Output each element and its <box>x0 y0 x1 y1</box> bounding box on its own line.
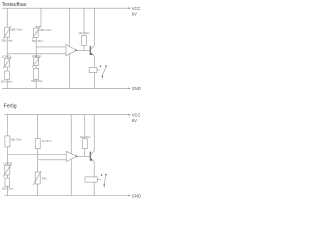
wire tap chain1 bc to opamp <box>7 154 66 156</box>
wire chain1 bc middle <box>6 147 8 165</box>
VCC rail (bottom circuit) <box>4 114 128 116</box>
svg-text:1k2 Ohm: 1k2 Ohm <box>80 135 92 139</box>
svg-text:GND: GND <box>132 86 141 91</box>
pull-up resistor R13 <box>82 139 87 149</box>
op-amp U1 <box>66 44 76 55</box>
wire chain1 bc bottom <box>6 186 8 195</box>
svg-text:P1k: P1k <box>42 177 47 181</box>
svg-text:2M2 Ohm: 2M2 Ohm <box>39 28 52 32</box>
GND arrow bottom <box>128 195 131 197</box>
resistor R8 <box>5 136 10 147</box>
LDR R9 <box>3 164 11 177</box>
relay2 contact common stub <box>103 186 105 188</box>
wire chain2 bc bottom <box>37 184 39 196</box>
wire between R5 and R6 <box>35 66 37 69</box>
wire relay2 coil to GND <box>93 182 95 195</box>
potentiometer R1 <box>3 26 11 39</box>
wire between LDR and R3 <box>6 67 8 71</box>
transistor Q2 <box>90 151 95 162</box>
wire chain2 jog <box>36 27 41 28</box>
svg-text:1k Ohm: 1k Ohm <box>42 139 52 143</box>
svg-text:Fertig: Fertig <box>4 104 17 110</box>
VCC arrow <box>128 7 131 9</box>
wire relay coil to GND <box>93 73 95 89</box>
resistor R10 <box>5 178 10 186</box>
wire tap chain1 to opamp <box>7 53 66 55</box>
relay2 contact NO terminal <box>105 174 107 176</box>
resistor R3 <box>5 71 10 79</box>
svg-text:VCC: VCC <box>132 6 141 11</box>
op-amp U1 output arrow <box>76 49 79 51</box>
wire R9 to R10 <box>6 175 8 178</box>
svg-text:2M2 Ohm: 2M2 Ohm <box>10 28 23 32</box>
wire Q1 collector to VCC <box>93 8 95 45</box>
wire opamp2 output to base <box>78 155 90 157</box>
VCC arrow bottom <box>128 114 131 116</box>
relay K1 coil <box>89 67 97 72</box>
relay contact common stub <box>101 77 103 79</box>
resistor R6 <box>34 68 39 79</box>
VCC rail (top circuit) <box>2 7 128 9</box>
potentiometer R4 <box>32 26 40 39</box>
svg-text:6V: 6V <box>132 12 137 17</box>
wire opamp output to base <box>78 50 90 52</box>
pull-up resistor R7 wire top <box>83 8 85 35</box>
svg-text:GND: GND <box>132 193 141 198</box>
svg-text:10k Ohm: 10k Ohm <box>10 138 22 142</box>
relay contact common terminal <box>102 76 104 78</box>
GND arrow <box>128 88 131 90</box>
wire R7 to output node <box>83 45 85 50</box>
wire chain2 top <box>40 8 42 26</box>
svg-text:LDR03: LDR03 <box>2 55 11 59</box>
GND rail (bottom circuit) <box>4 195 128 197</box>
transistor Q1 <box>90 46 95 57</box>
svg-text:560 Ohm: 560 Ohm <box>32 39 44 43</box>
wire chain1 top <box>6 8 8 27</box>
relay contact NO terminal <box>105 65 107 67</box>
svg-text:6V: 6V <box>132 118 137 123</box>
wire tap chain2 to opamp <box>36 46 66 48</box>
relay K1 mechanical link dash <box>97 69 100 71</box>
op-amp U2 output arrow <box>76 155 79 157</box>
relay contact lever <box>102 66 106 75</box>
wire chain1 bottom <box>6 79 8 88</box>
op-amp U2 VCC pin <box>70 115 72 154</box>
svg-text:Testaufbau: Testaufbau <box>2 2 27 8</box>
wire chain2 middle <box>35 38 37 58</box>
GND rail (top circuit) <box>2 87 128 89</box>
svg-text:560 Ohm: 560 Ohm <box>2 187 14 191</box>
relay2 contact lever <box>104 175 106 184</box>
wire Q1 emitter to relay <box>93 56 95 67</box>
relay2 contact NC terminal <box>101 174 103 176</box>
op-amp U2 GND pin <box>70 159 72 195</box>
relay K2 mechanical link dash <box>97 178 101 180</box>
potentiometer R12 <box>33 171 41 186</box>
wire chain2 bottom <box>35 79 37 88</box>
op-amp U1 GND pin <box>69 54 71 89</box>
pull-up resistor R13 wire top <box>84 115 86 139</box>
svg-text:LDR03: LDR03 <box>4 161 13 165</box>
wire chain2 bc top <box>37 115 39 139</box>
wire chain1 bottom-circuit top <box>6 115 8 136</box>
wire tap chain2 bc to opamp <box>38 159 66 161</box>
svg-text:560 Ohm: 560 Ohm <box>31 79 43 83</box>
relay2 contact common terminal <box>103 184 105 186</box>
wire chain1 middle <box>6 37 8 58</box>
LDR R2 <box>3 57 11 69</box>
wire chain2 bc middle <box>37 149 39 172</box>
LDR R5 <box>32 56 40 67</box>
op-amp U1 VCC pin <box>69 8 71 46</box>
wire Q2 collector to VCC <box>93 115 95 151</box>
svg-text:VCC: VCC <box>132 112 141 117</box>
relay contact NC terminal <box>100 65 102 67</box>
relay K2 coil <box>85 177 97 182</box>
wire R13 to output node <box>84 149 86 157</box>
wire Q2 emitter to relay <box>93 162 95 177</box>
pull-up resistor R7 <box>82 35 87 45</box>
resistor R11 <box>35 139 40 149</box>
svg-text:1k2 Ohm: 1k2 Ohm <box>78 31 90 35</box>
op-amp U2 <box>66 151 77 161</box>
